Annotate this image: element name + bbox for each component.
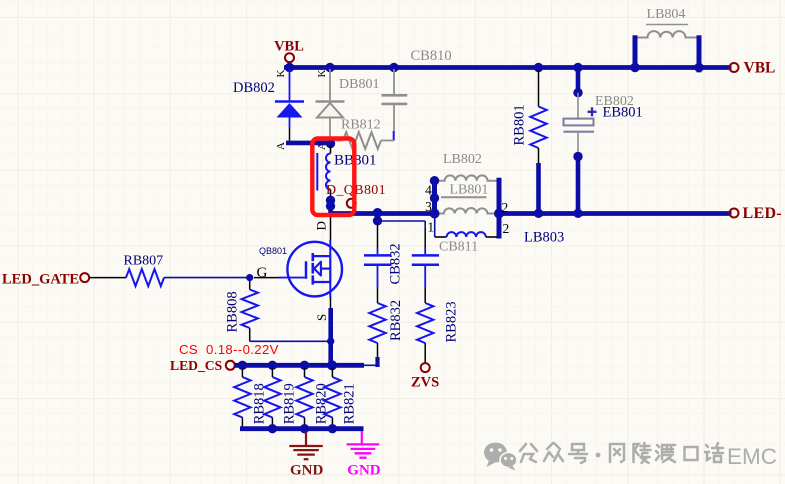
- svg-text:CB811: CB811: [439, 240, 478, 255]
- junction DB801: [325, 63, 334, 72]
- svg-text:LB801: LB801: [450, 183, 489, 198]
- svg-text:QB801: QB801: [259, 246, 287, 256]
- svg-text:RB832: RB832: [388, 300, 404, 341]
- svg-text:GND: GND: [347, 463, 381, 479]
- svg-text:CS 0.18--0.22V: CS 0.18--0.22V: [179, 342, 279, 357]
- resistor RB819: [271, 368, 273, 377]
- junction VBL/DB802: [285, 63, 294, 72]
- svg-text:RB823: RB823: [444, 301, 460, 342]
- terminal: [80, 273, 89, 282]
- junction bus/left leg: [430, 209, 440, 219]
- svg-text:RB821: RB821: [341, 383, 357, 424]
- svg-text:DB802: DB802: [233, 80, 275, 96]
- wire VBL bus: [284, 65, 732, 70]
- wire A node bus: [286, 141, 331, 146]
- junction EB801 bottom: [573, 152, 582, 161]
- terminal: [730, 209, 739, 218]
- svg-text:LED_GATE: LED_GATE: [2, 272, 79, 288]
- junction RB819: [268, 361, 277, 370]
- capacitor EB801 (electrolytic): [576, 69, 581, 93]
- svg-text:K: K: [316, 70, 328, 78]
- svg-text:VBL: VBL: [744, 60, 776, 77]
- svg-text:VBL: VBL: [274, 39, 304, 55]
- junction D top: [326, 196, 335, 205]
- svg-text:LED-: LED-: [743, 205, 782, 222]
- wire EB801 to LED- bus: [576, 157, 581, 216]
- junction pin3: [430, 193, 439, 202]
- junction BB801 top: [326, 139, 335, 148]
- svg-text:DB801: DB801: [339, 77, 379, 92]
- wire gate: [164, 277, 250, 279]
- svg-text:ZVS: ZVS: [411, 375, 439, 391]
- terminal: [285, 53, 294, 62]
- ground GND (magenta): [361, 431, 363, 444]
- junction gate: [246, 274, 253, 281]
- terminal: [226, 361, 235, 370]
- svg-text:K: K: [275, 70, 287, 78]
- polarity +: [588, 111, 597, 113]
- wire LED- bus left: [331, 211, 437, 216]
- junction: [328, 424, 337, 433]
- wire drain pin: [329, 240, 331, 256]
- junction EB801: [573, 63, 582, 72]
- resistor RB820: [304, 368, 306, 377]
- junction pin4: [430, 176, 439, 185]
- wire: [377, 215, 379, 223]
- junction snubber node: [373, 208, 383, 218]
- svg-text:3: 3: [425, 199, 432, 214]
- wire source: [330, 297, 332, 308]
- svg-text:2: 2: [502, 200, 509, 215]
- ground GND (dark red): [305, 431, 307, 446]
- junction RB818: [238, 361, 247, 370]
- svg-text:EB801: EB801: [603, 105, 643, 121]
- wire right leg of winding stack: [497, 178, 502, 239]
- terminal: [421, 363, 430, 372]
- junction RB801/LED-: [534, 209, 543, 218]
- junction LB804 left: [630, 63, 639, 72]
- svg-text:G: G: [257, 265, 268, 281]
- capacitor (snubber, grey): [393, 69, 395, 94]
- terminal D_QB801: [347, 199, 356, 208]
- svg-text:LED_CS: LED_CS: [170, 358, 222, 373]
- resistor RB818: [241, 368, 243, 377]
- svg-text:LB804: LB804: [647, 7, 686, 22]
- junction RB808 bottom: [327, 338, 334, 345]
- resistor RB821: [331, 368, 333, 377]
- svg-text:2: 2: [503, 221, 510, 236]
- junction: [268, 424, 277, 433]
- svg-text:RB807: RB807: [124, 254, 164, 269]
- junction EB801 top: [573, 88, 582, 97]
- svg-text:LB803: LB803: [524, 230, 564, 246]
- junction D bottom: [326, 201, 335, 210]
- junction: [300, 424, 309, 433]
- svg-text:EMC: EMC: [727, 444, 777, 469]
- wire RB832 to LED_CS bus: [375, 357, 379, 367]
- wire LED_CS bus: [235, 363, 364, 368]
- junction bus/right leg: [494, 209, 504, 219]
- wire: [364, 364, 378, 366]
- wire LB804 left leg: [633, 35, 638, 70]
- wire S net: [328, 308, 333, 367]
- watermark text: [520, 443, 723, 463]
- wire left leg of winding stack: [432, 177, 437, 218]
- svg-text:RB819: RB819: [281, 383, 297, 424]
- svg-text:RB801: RB801: [512, 104, 528, 145]
- junction snubber cap: [389, 63, 398, 72]
- wire: [89, 277, 126, 279]
- wire LB804 right leg: [697, 35, 702, 72]
- junction EB801/LED-: [573, 209, 582, 218]
- wire RB808 to S: [250, 340, 331, 342]
- wire source pin: [329, 282, 331, 297]
- terminal: [730, 63, 739, 72]
- highlight box (red): [312, 139, 354, 216]
- junction RB801: [534, 63, 543, 72]
- capacitor (RB823 chain): [412, 254, 439, 257]
- wire drain: [330, 216, 332, 241]
- svg-text:CB810: CB810: [411, 48, 452, 64]
- wire RB801 to LED- bus: [536, 163, 541, 216]
- svg-text:RB812: RB812: [341, 118, 381, 133]
- svg-text:RB818: RB818: [251, 383, 267, 424]
- junction RB821/S: [327, 360, 337, 370]
- junction branch: [373, 216, 382, 225]
- svg-text:1: 1: [427, 220, 434, 235]
- watermark wechat logo: [484, 443, 517, 471]
- junction RB820: [300, 361, 309, 370]
- svg-text:RB808: RB808: [225, 291, 241, 332]
- svg-text:S: S: [314, 314, 329, 321]
- wire LED- bus right: [497, 211, 732, 216]
- svg-text:LB802: LB802: [443, 152, 482, 167]
- svg-text:D: D: [314, 221, 329, 230]
- inductor LB801 core line: [441, 196, 487, 198]
- svg-text:A: A: [275, 142, 287, 150]
- wire ground bus: [240, 426, 364, 431]
- wire branch to RB823: [378, 220, 426, 222]
- svg-text:4: 4: [425, 183, 432, 198]
- junction LB804 right: [694, 63, 703, 72]
- svg-text:GND: GND: [290, 463, 324, 479]
